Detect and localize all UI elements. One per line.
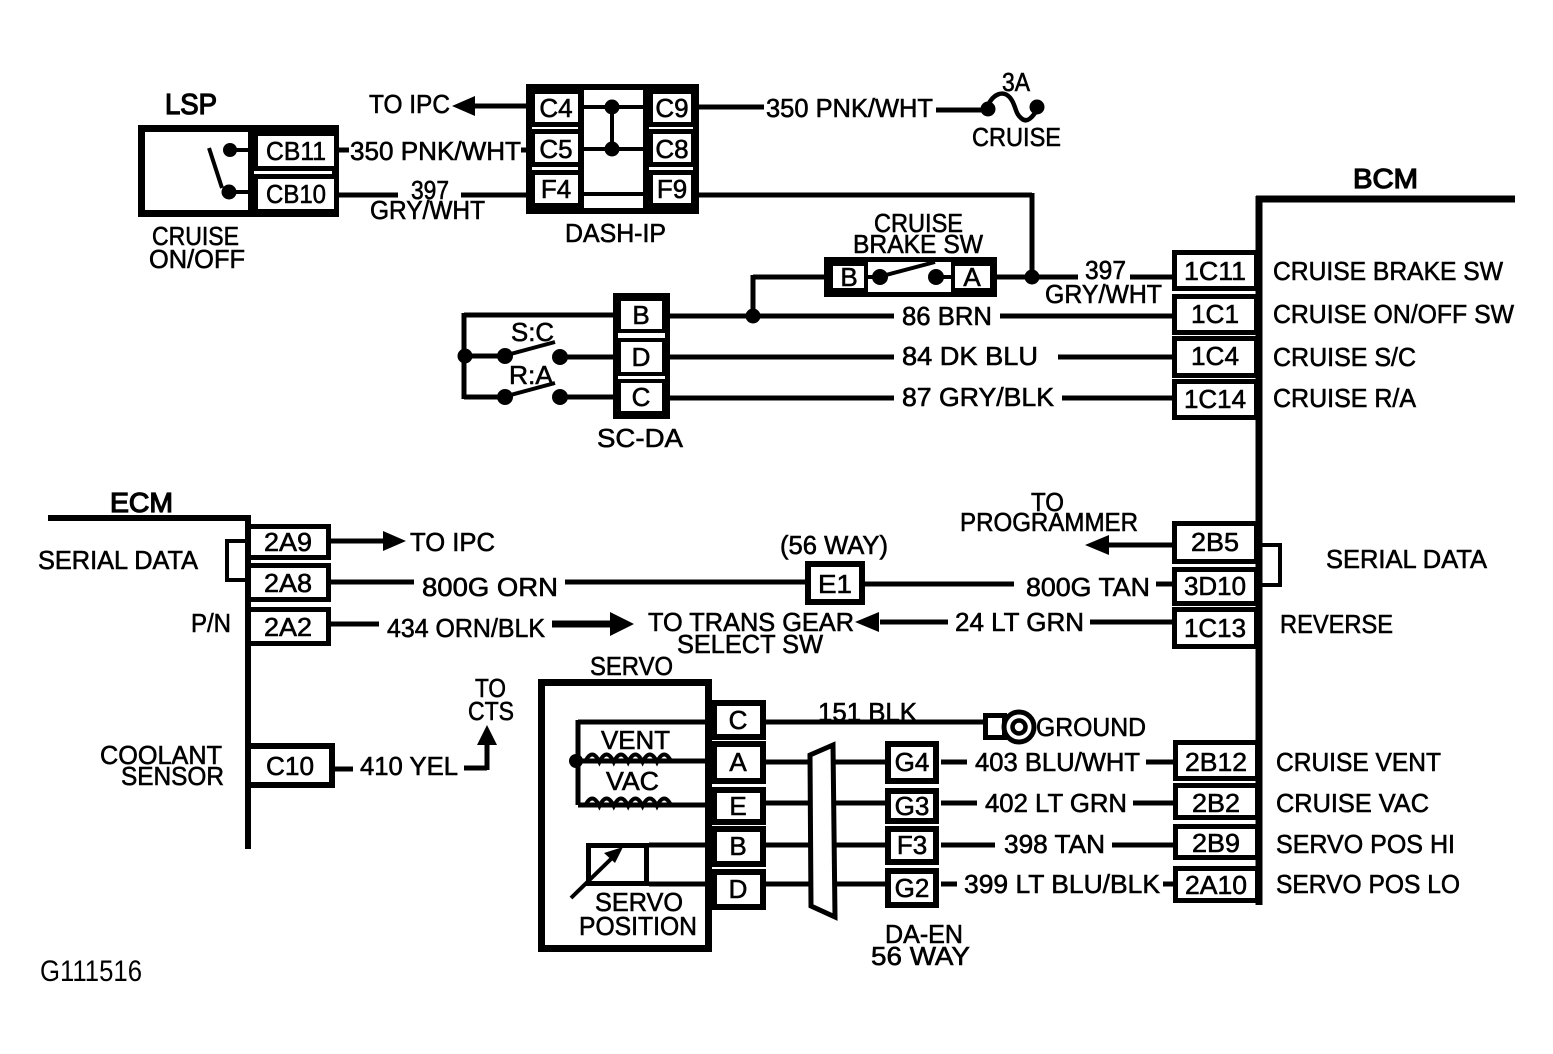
svg-text:CB11: CB11 (266, 136, 326, 166)
svg-text:2A2: 2A2 (264, 612, 312, 642)
svg-text:TO IPC: TO IPC (410, 527, 495, 557)
svg-text:800G ORN: 800G ORN (422, 572, 558, 602)
svg-text:ON/OFF: ON/OFF (149, 244, 245, 274)
svg-text:2A9: 2A9 (264, 527, 312, 557)
svg-text:1C13: 1C13 (1184, 613, 1246, 643)
svg-text:SENSOR: SENSOR (121, 761, 224, 791)
svg-text:(56 WAY): (56 WAY) (780, 530, 888, 560)
svg-text:403 BLU/WHT: 403 BLU/WHT (975, 747, 1140, 777)
svg-text:1C11: 1C11 (1184, 256, 1246, 286)
svg-text:LSP: LSP (165, 89, 217, 121)
svg-text:GRY/WHT: GRY/WHT (370, 195, 485, 225)
svg-text:SERVO POS HI: SERVO POS HI (1276, 829, 1455, 859)
svg-text:C9: C9 (655, 93, 688, 123)
svg-text:402 LT GRN: 402 LT GRN (985, 788, 1127, 818)
svg-text:2B12: 2B12 (1185, 747, 1247, 777)
svg-text:B: B (632, 300, 649, 330)
svg-text:D: D (729, 874, 748, 904)
svg-text:350 PNK/WHT: 350 PNK/WHT (350, 136, 521, 166)
svg-text:BRAKE SW: BRAKE SW (853, 229, 983, 259)
svg-text:399 LT BLU/BLK: 399 LT BLU/BLK (964, 869, 1161, 899)
svg-text:G111516: G111516 (40, 955, 142, 988)
svg-text:434 ORN/BLK: 434 ORN/BLK (387, 613, 546, 643)
svg-text:B: B (840, 262, 857, 292)
svg-text:DASH-IP: DASH-IP (565, 218, 666, 248)
svg-text:2B2: 2B2 (1192, 788, 1240, 818)
svg-text:GRY/WHT: GRY/WHT (1045, 279, 1162, 309)
svg-text:A: A (729, 747, 747, 777)
svg-text:SERVO POS LO: SERVO POS LO (1276, 869, 1460, 899)
svg-text:151 BLK: 151 BLK (818, 697, 918, 727)
svg-text:G3: G3 (895, 791, 930, 821)
svg-text:84 DK BLU: 84 DK BLU (902, 341, 1038, 371)
svg-text:F4: F4 (541, 174, 571, 204)
svg-text:ECM: ECM (110, 487, 173, 518)
svg-text:C5: C5 (539, 134, 572, 164)
svg-text:350 PNK/WHT: 350 PNK/WHT (766, 93, 933, 123)
svg-text:2B5: 2B5 (1191, 527, 1239, 557)
svg-text:TO IPC: TO IPC (369, 89, 450, 119)
svg-text:SERVO: SERVO (590, 651, 673, 681)
svg-text:P/N: P/N (191, 608, 231, 638)
svg-text:SELECT SW: SELECT SW (677, 629, 823, 659)
svg-text:VAC: VAC (606, 766, 659, 796)
svg-text:CB10: CB10 (266, 179, 326, 209)
svg-text:24 LT GRN: 24 LT GRN (955, 607, 1084, 637)
svg-text:86 BRN: 86 BRN (902, 301, 992, 331)
svg-text:VENT: VENT (601, 725, 670, 755)
svg-text:1C1: 1C1 (1191, 299, 1239, 329)
svg-text:A: A (963, 262, 981, 292)
svg-text:CRUISE S/C: CRUISE S/C (1273, 342, 1416, 372)
svg-text:PROGRAMMER: PROGRAMMER (960, 507, 1138, 537)
svg-text:SERIAL DATA: SERIAL DATA (38, 545, 199, 575)
svg-text:BCM: BCM (1353, 163, 1418, 194)
svg-text:E1: E1 (818, 569, 852, 599)
svg-text:REVERSE: REVERSE (1280, 609, 1393, 639)
svg-text:2B9: 2B9 (1192, 828, 1240, 858)
svg-text:800G TAN: 800G TAN (1026, 572, 1150, 602)
svg-text:2A10: 2A10 (1185, 870, 1247, 900)
svg-text:R:A: R:A (509, 360, 554, 390)
svg-text:CRUISE: CRUISE (972, 122, 1061, 152)
svg-text:C: C (729, 705, 748, 735)
svg-text:D: D (632, 342, 651, 372)
svg-text:CRUISE BRAKE SW: CRUISE BRAKE SW (1273, 256, 1503, 286)
svg-text:3A: 3A (1002, 67, 1031, 97)
svg-text:1C14: 1C14 (1184, 384, 1246, 414)
svg-text:S:C: S:C (511, 317, 554, 347)
svg-text:CTS: CTS (468, 696, 514, 726)
svg-text:SERIAL DATA: SERIAL DATA (1326, 544, 1488, 574)
svg-text:C4: C4 (539, 93, 572, 123)
svg-text:3D10: 3D10 (1184, 571, 1246, 601)
svg-text:B: B (729, 831, 746, 861)
svg-text:CRUISE VAC: CRUISE VAC (1276, 788, 1429, 818)
svg-text:G4: G4 (895, 747, 930, 777)
svg-text:G2: G2 (895, 873, 930, 903)
svg-text:GROUND: GROUND (1036, 712, 1146, 742)
svg-text:398 TAN: 398 TAN (1004, 829, 1105, 859)
svg-text:C: C (632, 382, 651, 412)
svg-text:CRUISE R/A: CRUISE R/A (1273, 383, 1417, 413)
svg-text:CRUISE ON/OFF SW: CRUISE ON/OFF SW (1273, 299, 1514, 329)
svg-text:E: E (729, 791, 746, 821)
svg-text:F3: F3 (897, 830, 927, 860)
svg-text:POSITION: POSITION (579, 911, 697, 941)
svg-text:2A8: 2A8 (264, 568, 312, 598)
svg-text:SC-DA: SC-DA (597, 423, 684, 453)
svg-text:1C4: 1C4 (1191, 341, 1239, 371)
svg-text:56 WAY: 56 WAY (871, 941, 970, 971)
svg-text:C10: C10 (266, 751, 314, 781)
svg-text:F9: F9 (657, 174, 687, 204)
svg-text:CRUISE VENT: CRUISE VENT (1276, 747, 1441, 777)
svg-text:87 GRY/BLK: 87 GRY/BLK (902, 382, 1055, 412)
svg-text:410 YEL: 410 YEL (360, 751, 458, 781)
svg-text:C8: C8 (655, 134, 688, 164)
